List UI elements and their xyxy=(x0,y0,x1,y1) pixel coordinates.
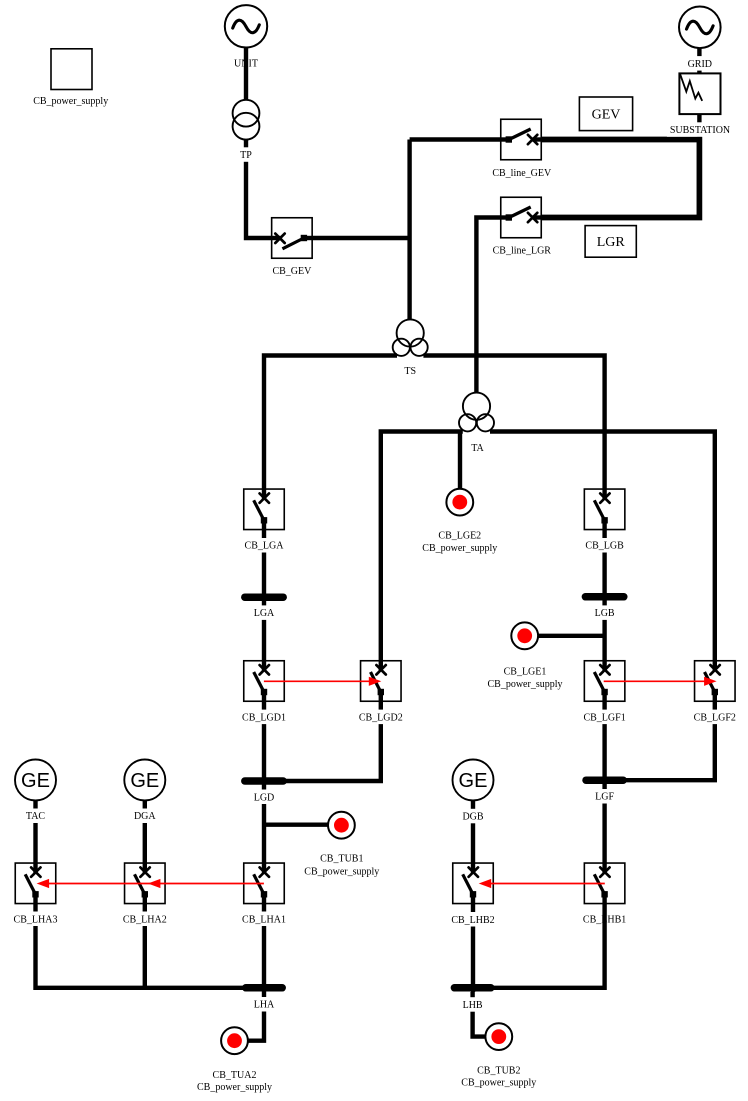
breaker CB_LGF2 xyxy=(695,661,736,702)
bus LGD xyxy=(245,777,283,785)
svg-text:CB_LHB2: CB_LHB2 xyxy=(451,915,494,926)
wire CB_line_LGR to TA xyxy=(476,218,501,393)
breaker CB_line_GEV xyxy=(501,119,542,160)
power supply CB_TUB2 xyxy=(485,1023,512,1050)
svg-text:CB_line_LGR: CB_line_LGR xyxy=(493,246,552,257)
substation SUBSTATION xyxy=(679,73,720,114)
breaker CB_LHA1 xyxy=(244,863,285,904)
svg-text:DGA: DGA xyxy=(134,811,156,822)
wire LHB to CB_TUB2 supply xyxy=(473,992,486,1037)
wire motor DGB to CB_LHB2 xyxy=(471,801,475,863)
svg-text:CB_LGD2: CB_LGD2 xyxy=(359,712,403,723)
svg-text:CB_LHA2: CB_LHA2 xyxy=(123,914,167,925)
svg-text:CB_power_supply: CB_power_supply xyxy=(197,1082,272,1093)
motor DGB xyxy=(453,760,494,801)
label TS xyxy=(404,366,416,377)
svg-text:LGF: LGF xyxy=(595,792,614,803)
label CB_LGA xyxy=(243,538,286,553)
generator GRID xyxy=(679,7,721,49)
wire CB_LHA3 down + across to LHA bus xyxy=(36,904,265,988)
transformer TS xyxy=(393,319,428,356)
power supply CB_TUB1 xyxy=(328,812,355,839)
label CB_LHB1 (under wire) xyxy=(583,914,626,925)
label CB_LGF2 xyxy=(692,710,738,725)
label CB_GEV xyxy=(272,266,312,277)
svg-text:TAC: TAC xyxy=(26,811,46,822)
bus LGA xyxy=(245,593,283,601)
label CB_power_supply under CB_TUA2 xyxy=(197,1082,272,1093)
wire TA bus right + down to CB_LGF2 xyxy=(490,432,715,661)
wire CB_LGE1 supply to column B xyxy=(538,634,605,638)
wire SUBSTATION stub down xyxy=(697,114,701,140)
svg-text:CB_LGB: CB_LGB xyxy=(585,541,624,552)
label CB_LGD2 xyxy=(357,710,405,725)
motor DGA xyxy=(124,760,165,801)
wire CB_LHB2 through LHB bus xyxy=(471,904,475,993)
svg-text:GRID: GRID xyxy=(688,59,712,70)
label CB_TUA2 xyxy=(213,1070,257,1081)
svg-text:CB_power_supply: CB_power_supply xyxy=(488,679,563,690)
wire GRID to SUBSTATION xyxy=(697,48,701,74)
breaker CB_LGF1 xyxy=(584,661,625,702)
power supply CB_LGE2 xyxy=(446,489,473,516)
wire CB_LGD1 to LGD bus to CB_LHA1 xyxy=(262,701,266,863)
bus LGF xyxy=(586,776,623,784)
wire TS bus left + down to CB_LGA xyxy=(264,356,397,490)
wire CB_LGB to LGB bus to CB_LGF1 xyxy=(602,530,606,661)
breaker CB_LHA3 xyxy=(15,863,56,904)
label TP xyxy=(238,147,254,162)
label CB_TUB2 xyxy=(477,1066,520,1077)
generator UNIT xyxy=(225,5,267,47)
breaker CB_LHB1 xyxy=(584,863,625,904)
label CB_LGE1 xyxy=(504,667,547,678)
wire LHA to CB_TUA2 supply xyxy=(248,992,264,1041)
arrow CB_LHB1 to CB_LHB2 xyxy=(479,879,605,888)
label CB_line_GEV xyxy=(492,168,552,179)
svg-text:CB_LGF1: CB_LGF1 xyxy=(583,712,625,723)
svg-text:GE: GE xyxy=(130,770,159,792)
label CB_LHA2 xyxy=(121,912,169,927)
wire TP to CB_GEV xyxy=(246,139,272,238)
wire LGD branch to CB_TUB1 supply xyxy=(264,823,328,827)
label GRID xyxy=(686,56,714,71)
label CB_LGB xyxy=(584,538,626,553)
label CB_power_supply under CB_LGE1 xyxy=(488,679,563,690)
svg-text:CB_power_supply: CB_power_supply xyxy=(304,866,379,877)
label SUBSTATION xyxy=(667,122,733,137)
wire CB_LGF2 down to LGF bus xyxy=(626,701,715,780)
tag box GEV xyxy=(579,97,632,131)
label CB_LGF1 xyxy=(582,710,628,725)
wire thick loop GEV-substation-LGR xyxy=(541,140,699,218)
arrow CB_LGF1 to CB_LGF2 xyxy=(604,677,717,686)
svg-text:CB_LGA: CB_LGA xyxy=(245,541,285,552)
wire motor TAC to CB_LHA3 xyxy=(33,801,37,863)
label LGD xyxy=(252,790,277,805)
wire motor DGA to CB_LHA2 xyxy=(143,801,147,863)
wire TA to CB_LGE2 supply xyxy=(458,432,462,489)
breaker CB_line_LGR xyxy=(501,197,542,238)
svg-text:CB_TUA2: CB_TUA2 xyxy=(213,1070,257,1081)
bus LHA xyxy=(246,984,282,992)
svg-text:SUBSTATION: SUBSTATION xyxy=(670,125,730,136)
svg-text:CB_LGF2: CB_LGF2 xyxy=(694,712,736,723)
svg-text:LGA: LGA xyxy=(254,608,275,619)
svg-text:CB_LHA3: CB_LHA3 xyxy=(14,914,58,925)
svg-text:LGB: LGB xyxy=(595,608,615,619)
breaker CB_LGB xyxy=(584,489,625,530)
svg-text:LGR: LGR xyxy=(597,235,626,250)
label LHA xyxy=(252,997,277,1012)
svg-text:CB_line_GEV: CB_line_GEV xyxy=(492,168,552,179)
svg-text:TA: TA xyxy=(471,443,484,454)
breaker CB_LHA2 xyxy=(125,863,166,904)
svg-text:CB_power_supply: CB_power_supply xyxy=(422,543,497,554)
svg-text:CB_LHA1: CB_LHA1 xyxy=(242,914,286,925)
svg-text:CB_TUB2: CB_TUB2 xyxy=(477,1066,520,1077)
label CB_power_supply under CB_TUB2 xyxy=(461,1078,536,1089)
label LGB xyxy=(592,605,617,620)
svg-text:CB_LGD1: CB_LGD1 xyxy=(242,712,286,723)
wire CB_LGF1 to LGF bus to CB_LHB1 xyxy=(602,701,606,863)
label TA xyxy=(471,443,484,454)
breaker CB_LGD2 xyxy=(361,661,402,702)
wire UNIT to TP xyxy=(244,48,248,101)
label DGA xyxy=(132,809,158,824)
wire CB_GEV to node xyxy=(312,236,410,240)
breaker CB_LGD1 xyxy=(244,661,285,702)
breaker CB_GEV xyxy=(272,218,313,259)
transformer TP xyxy=(233,100,260,140)
label CB_LHB2 xyxy=(449,912,496,927)
legend label CB_power_supply xyxy=(33,96,108,107)
label CB_power_supply under CB_LGE2 xyxy=(422,543,497,554)
label LGF xyxy=(593,789,616,804)
svg-text:TS: TS xyxy=(404,366,416,377)
svg-text:GE: GE xyxy=(21,770,50,792)
svg-text:LHA: LHA xyxy=(254,1000,275,1011)
wire node vertical GEV riser xyxy=(407,140,411,320)
svg-text:LHB: LHB xyxy=(463,1000,483,1011)
svg-text:GEV: GEV xyxy=(592,108,621,123)
svg-text:CB_LGE2: CB_LGE2 xyxy=(438,531,481,542)
label LGA xyxy=(252,605,277,620)
tag box LGR xyxy=(585,226,636,258)
breaker CB_LHB2 xyxy=(453,863,494,904)
arrow CB_LGD1 to CB_LGD2 xyxy=(264,677,381,686)
label CB_LGE2 xyxy=(438,531,481,542)
label DGB xyxy=(460,809,485,824)
label CB_LHA3 xyxy=(12,912,60,927)
arrow CB_LHA1 to CB_LHA2 to CB_LHA3 xyxy=(37,879,264,888)
wire CB_LGD2 down to LGD bus xyxy=(270,701,381,781)
bus LHB xyxy=(454,984,490,992)
svg-text:CB_GEV: CB_GEV xyxy=(272,266,312,277)
wire node to CB_line_GEV xyxy=(410,137,501,141)
legend breaker square xyxy=(51,49,92,90)
wire CB_LGA to LGA bus to CB_LGD1 xyxy=(262,530,266,661)
wire TS bus right + down to CB_LGB xyxy=(423,356,604,490)
bus LGB xyxy=(585,593,623,601)
label CB_power_supply under CB_TUB1 xyxy=(304,866,379,877)
breaker CB_LGA xyxy=(244,489,285,530)
svg-text:TP: TP xyxy=(240,150,252,161)
svg-text:CB_TUB1: CB_TUB1 xyxy=(320,853,363,864)
svg-text:DGB: DGB xyxy=(462,812,483,823)
label CB_LHA1 xyxy=(240,912,288,927)
power supply CB_TUA2 xyxy=(221,1027,248,1054)
motor TAC xyxy=(15,760,56,801)
wire CB_LHA1 through LHA bus xyxy=(262,904,266,993)
svg-text:CB_LGE1: CB_LGE1 xyxy=(504,667,547,678)
label LHB xyxy=(461,997,485,1012)
label CB_TUB1 xyxy=(320,853,363,864)
wire CB_LHA2 down to LHA junction xyxy=(143,904,147,988)
svg-text:GE: GE xyxy=(459,770,488,792)
transformer TA xyxy=(459,393,494,432)
wire CB_LHB1 down + across to LHB bus xyxy=(480,904,605,988)
wire TA bus left + down to CB_LGD2 xyxy=(381,432,463,661)
svg-text:CB_power_supply: CB_power_supply xyxy=(33,96,108,107)
power supply CB_LGE1 xyxy=(511,622,538,649)
label TAC xyxy=(24,809,48,824)
label CB_LGD1 xyxy=(240,710,288,725)
svg-text:LGD: LGD xyxy=(254,792,275,803)
label CB_line_LGR xyxy=(493,246,552,257)
label UNIT (under wire) xyxy=(234,59,258,70)
svg-text:CB_power_supply: CB_power_supply xyxy=(461,1078,536,1089)
